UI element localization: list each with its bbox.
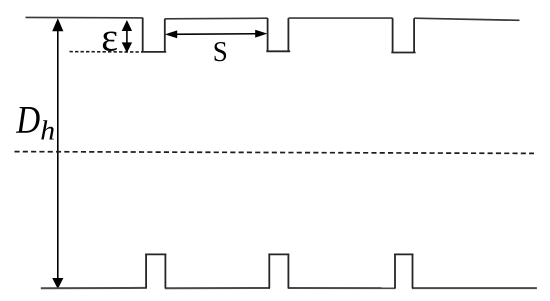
dimension arrow s — [165, 30, 268, 38]
bottom wall segment 4 — [412, 287, 537, 289]
svg-text:h: h — [40, 117, 55, 146]
bottom wall segment 2 — [165, 287, 270, 289]
top wall segment 3 — [288, 17, 392, 19]
bottom wall segment 3 — [288, 287, 396, 289]
top wall segment 4 — [414, 18, 519, 20]
top wall segment 1 — [26, 16, 143, 19]
bottom rib 2 — [268, 254, 289, 288]
dimension arrow Dh — [52, 18, 63, 289]
top rib groove 2 — [266, 18, 290, 51]
top rib groove 3 — [391, 18, 415, 52]
top rib groove 1 — [141, 18, 166, 52]
dimension arrow epsilon — [122, 20, 132, 53]
top wall segment 2 — [165, 17, 268, 20]
bottom rib 3 — [394, 254, 414, 288]
centerline (dashed channel axis) — [15, 152, 535, 154]
bottom rib 1 — [145, 254, 166, 288]
svg-text:S: S — [213, 36, 228, 68]
svg-text:D: D — [15, 98, 40, 141]
dashed epsilon reference line — [70, 51, 141, 53]
bottom wall segment 1 — [41, 287, 147, 289]
svg-text:ε: ε — [101, 15, 118, 60]
